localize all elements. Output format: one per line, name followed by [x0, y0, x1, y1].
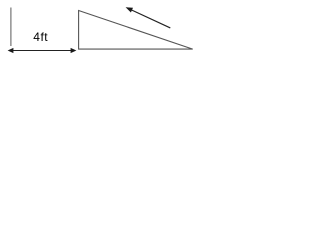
svg-text:4ft: 4ft	[33, 30, 48, 44]
